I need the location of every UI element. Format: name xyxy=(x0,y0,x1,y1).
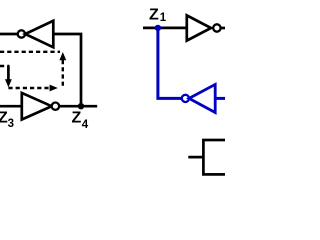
svg-text:Z: Z xyxy=(72,109,82,126)
dashed feedback loop: right edge with up arrow xyxy=(62,60,64,88)
node Z4 junction dot xyxy=(78,103,84,109)
wire: bottom rail through node Z4 xyxy=(0,105,97,108)
inverter U2 triangle (points right) xyxy=(22,93,52,120)
block B1 (partially cropped box) xyxy=(203,140,229,174)
inverter U4 triangle (points left, blue) xyxy=(189,84,215,112)
wire: U3 output to right edge xyxy=(221,27,226,30)
svg-text:1: 1 xyxy=(160,12,167,24)
arrowhead down on left dashed edge xyxy=(5,79,12,87)
inverter U2 output bubble xyxy=(52,103,59,110)
inverter U3 triangle (points right) xyxy=(187,15,211,40)
wire: output of top-left inverter U1 to left edge xyxy=(0,33,18,36)
dashed feedback loop: left vertical with down arrow xyxy=(7,66,10,80)
dashed feedback loop: left entry segment xyxy=(0,65,10,67)
dashed feedback loop: bottom edge with right arrow xyxy=(8,87,50,89)
svg-text:3: 3 xyxy=(8,118,14,130)
arrowhead up on right dashed edge xyxy=(59,52,66,60)
wire: Z1 input rail xyxy=(143,27,187,30)
arrowhead right on bottom dashed edge xyxy=(50,85,58,92)
inverter U1 triangle (points left) xyxy=(25,21,53,48)
node Z1 junction dot (blue) xyxy=(155,25,161,31)
wire: blue feedback from node Z1 down and right to U4 bubble xyxy=(158,28,182,99)
wire: U4 input from right edge (blue) xyxy=(215,97,225,100)
inverter U3 output bubble xyxy=(213,24,220,31)
dashed feedback loop: top edge xyxy=(0,51,60,53)
svg-text:Z: Z xyxy=(149,6,159,23)
svg-text:4: 4 xyxy=(82,119,89,131)
wire: U1 input from right, corner down to node Z4 rail xyxy=(53,34,81,106)
inverter U4 output bubble (blue) xyxy=(182,95,189,102)
inverter U1 bubble (left-pointing, output bubble) xyxy=(18,30,25,37)
wire: stub into block B1 xyxy=(188,156,203,159)
